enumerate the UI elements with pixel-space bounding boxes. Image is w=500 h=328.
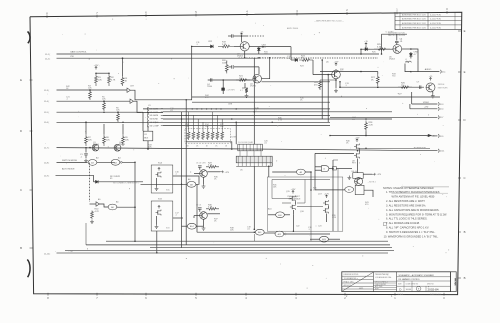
wire riser x143 [142,112,144,131]
fet Q17 [324,201,326,205]
resistor R4 [89,90,92,100]
bus line B1 [192,96,440,98]
wire audio drop2 [339,82,341,87]
resistor R10 [91,211,94,220]
svg-text:1. THIS SCHEMATIC DIAGRAM INT: 1. THIS SCHEMATIC DIAGRAM INTERFACES [386,190,440,194]
wire stage1 out2 [259,46,291,48]
buffer A1 [127,88,130,92]
wire gates row2 [196,184,198,232]
transistor Q3 [240,42,249,51]
transistor Q1 [92,144,99,151]
capacitor C9 [198,208,202,209]
svg-text:2N404: 2N404 [237,56,244,58]
wire input row 3 [57,111,144,113]
resistor R28 [365,121,368,132]
svg-text:K1A: K1A [158,162,162,165]
wire riser x181 [181,112,183,248]
capacitor C6 [396,34,398,40]
svg-text:J1-4 (: J1-4 ( [44,101,49,103]
wire R28 bot [365,132,367,136]
wire U5 right down [271,163,273,167]
svg-text:CODE IDENT NO: CODE IDENT NO [406,283,419,285]
svg-text:S3 GATE: S3 GATE [150,114,159,117]
svg-text:J1-1 (: J1-1 ( [45,54,50,56]
power +12V mid [220,171,224,173]
resistor R23 [299,59,313,62]
bus line L1 [106,240,388,242]
wire A8 out [187,176,199,184]
svg-text:B: B [464,230,466,234]
gate U2 out box [333,167,337,170]
wire gates row [197,231,255,233]
svg-text:TRIG: TRIG [207,86,212,88]
svg-text:TOLERANCES ±: TOLERANCES ± [344,277,358,280]
svg-text:NO CONNECT - SEE NOTE 5: NO CONNECT - SEE NOTE 5 [113,183,139,185]
power +12V U3 [372,173,376,175]
wire Q3 emitter [244,51,246,58]
wire phase internal 1 [272,179,330,181]
wire A3-A4 [97,161,115,163]
svg-text:+12V: +12V [334,61,339,63]
svg-text:22K: 22K [106,139,110,141]
svg-text:CAL-AD: CAL-AD [351,170,359,173]
svg-text:DWG NO: DWG NO [427,283,434,285]
svg-text:E: E [464,70,466,74]
transistor Q7 [426,83,435,92]
connector J2-9 [437,134,440,138]
wire riser x322 [321,60,323,119]
wire U5 left [235,122,237,144]
resistor R19 [218,45,234,48]
svg-text:10040: 10040 [406,289,412,291]
svg-text:10K: 10K [125,139,129,141]
resistor R26 [398,86,412,89]
bus line B3 [143,108,330,110]
svg-text:4-12-67 R.W.: 4-12-67 R.W. [430,19,442,21]
svg-text:AMPL 2N404: AMPL 2N404 [287,27,298,30]
wire U5 feed [253,59,255,145]
svg-text:4.7: 4.7 [240,90,243,92]
wire A6 out [117,206,135,208]
power +12V Q8 [356,139,358,142]
section box left B [151,201,173,231]
transistor Q13 [200,170,208,178]
wire +15 node [233,35,247,37]
svg-text:D: D [463,118,465,122]
ground G3 [245,94,249,98]
sheet border frame [30,12,462,294]
wire C5 gnd [222,91,224,94]
svg-text:2.2K: 2.2K [369,124,374,126]
svg-text:C: C [20,188,22,192]
wire cw right segment [260,57,378,59]
power +12V Q5 [335,63,337,66]
gate A8 [187,181,196,187]
resistor R27 [376,74,379,86]
svg-text:K1B: K1B [158,199,162,201]
svg-text:D: D [20,129,22,133]
svg-text:+12V: +12V [355,137,360,139]
svg-text:DG 14LS08 QUAD: DG 14LS08 QUAD [238,141,254,144]
svg-text:LOS ANGELES CAL: LOS ANGELES CAL [375,276,391,279]
dip block U5 top [238,144,263,151]
philbrick tab [451,272,457,292]
gate A7 [345,187,354,193]
wire cw [57,57,261,59]
capacitor C4 [211,78,212,82]
resistor R7 [85,134,88,146]
wire dotted rail [239,57,285,59]
wire audio link [405,64,412,72]
wire C6 down [396,43,398,45]
wire gain to stage [360,49,362,54]
ground G7 [155,187,159,191]
svg-text:+VID: +VID [424,107,429,109]
svg-text:2.2K: 2.2K [332,217,337,219]
wire ladder out [228,142,232,149]
wire fb [226,61,228,63]
wire gate B row [330,135,428,137]
wire R27 top [377,72,379,75]
ground G2 [90,220,94,224]
wire second stage feed [320,71,378,73]
resistor R8 [103,134,106,146]
wire R7 top [85,122,87,134]
svg-text:4.7V: 4.7V [262,47,267,49]
svg-text:×2.5 PAD: ×2.5 PAD [385,31,394,34]
svg-text:4.7K: 4.7K [95,211,100,213]
phase box [267,177,343,231]
resistor R22 [245,88,248,93]
wire video feed [411,92,413,104]
svg-text:+12V: +12V [225,172,230,174]
svg-text:C23: C23 [318,226,321,228]
svg-text:+12V: +12V [324,193,329,195]
box U3 [353,173,363,179]
power +15V Q7 [429,78,431,81]
svg-text:4-12-67 R.W.: 4-12-67 R.W. [430,23,442,25]
diode CR5 [368,48,370,50]
wire riser x333 [332,160,334,231]
wire Q5 base [313,74,332,76]
title block grid [342,272,451,292]
svg-text:+12V: +12V [94,65,99,67]
svg-text:3.3K: 3.3K [377,47,382,49]
svg-text:TELEDYNE INC: TELEDYNE INC [375,274,389,276]
wire fp2 link [297,206,323,208]
svg-text:2N404: 2N404 [389,59,396,61]
wire U4 out [364,190,373,197]
svg-text:100K: 100K [222,62,227,64]
wire q5 link [320,79,336,81]
wire A7 in [315,189,345,191]
svg-text:2N404: 2N404 [93,144,100,146]
resistor R21 [236,79,250,82]
svg-text:GAIN CONTROL: GAIN CONTROL [70,51,87,54]
bus line B8 [163,125,330,127]
svg-text:- - AMPLIFIER ASSY NO 21-304 -: - - AMPLIFIER ASSY NO 21-304 - - [314,20,344,23]
resistor R6 [117,112,120,122]
bus line B7 [143,121,330,123]
wire riser x294 [292,214,294,231]
gate A14 [187,223,196,229]
svg-text:14: 14 [323,169,325,171]
fet Q18 [324,208,326,212]
ground G5 [431,94,435,98]
wire bus risers mid [253,234,255,241]
svg-text:SIZE: SIZE [398,283,402,285]
power +12V fetpair [292,191,294,194]
svg-text:5. MONITOR REQUIRED FOR S¹ TE: 5. MONITOR REQUIRED FOR S¹ TERM AT 75 Ω … [386,212,447,216]
dip block U5 bar [236,156,272,163]
box U4 [355,185,364,194]
svg-text:ANGLES: ANGLES [344,284,352,287]
svg-text:2. ALL RESISTORS ARE ¼ WATT.: 2. ALL RESISTORS ARE ¼ WATT. [386,199,425,203]
svg-text:PH/AM: PH/AM [454,278,457,285]
wire A14 in [182,225,188,227]
wire Q5 emitter [335,79,337,88]
wire R9 top [122,124,124,134]
wire riser x311 [310,179,312,190]
gate A10 [276,212,285,218]
wire Q4 riser [222,80,224,88]
fet Q8 [355,144,357,148]
svg-text:S2 GATE: S2 GATE [150,111,159,114]
svg-text:NOTES: UNLESS OTHERWISE SPECIF: NOTES: UNLESS OTHERWISE SPECIFIED [383,186,434,190]
junction dots [95,72,97,74]
fet Q12 [157,210,159,214]
dip U5 bar pins [237,156,239,163]
wire Q4 emitter [244,83,246,88]
svg-text:+8V RTN BUS: +8V RTN BUS [413,148,427,150]
binder punch mark lower [27,260,30,278]
section box left A [151,165,173,193]
wire Q6 base [370,48,393,50]
svg-text:C22: C22 [296,226,299,228]
wire A10 in [268,214,276,216]
resistor R2 [108,73,111,86]
svg-text:10K: 10K [98,79,102,81]
svg-text:A REVISED PER ECO 1174: A REVISED PER ECO 1174 [402,14,426,17]
wire phase internal 3 [272,198,291,200]
wire Q3 collector [241,36,243,42]
capacitor C7 [420,85,421,89]
svg-text:+12V NPO: +12V NPO [226,90,235,92]
svg-text:A REVISED PER ECO 1174: A REVISED PER ECO 1174 [402,26,426,29]
resistor R5 [103,101,106,111]
capacitor C8 [198,166,202,167]
wire Q13 out row [207,171,220,173]
capacitor C1 [85,148,87,153]
svg-text:22K: 22K [88,139,92,141]
wire Q13 em [203,177,205,184]
wire riser x254 [253,166,255,229]
svg-text:+12V: +12V [291,189,296,191]
svg-text:4. ALL CAPACITORS ARE IN MICR: 4. ALL CAPACITORS ARE IN MICROFARADS. [386,208,440,212]
wire phase internal 2 [304,180,306,204]
svg-text:6. ALL TTL LOGIC IS 74LS SERI: 6. ALL TTL LOGIC IS 74LS SERIES. [386,217,428,221]
bus line L3 [85,223,87,245]
revision table [395,12,462,30]
wire dash rail top [247,35,264,37]
wire Q3 base [234,45,240,47]
svg-text:9. SWITCH S DESIGNATES 1 × “B: 9. SWITCH S DESIGNATES 1 × “B-2” PNL. [386,230,436,234]
svg-text:FRACT DEC: FRACT DEC [344,280,355,283]
svg-text:2N706: 2N706 [250,86,257,88]
wire riser x186 [185,100,187,245]
wire riser x89 [89,163,91,202]
resistor R3 [121,76,124,86]
diode CR2 [211,45,214,48]
wire Q14 em [203,219,205,226]
svg-text:4.7K: 4.7K [208,207,213,209]
wire stage1 in [192,45,205,47]
wire R8 top [103,124,105,134]
bus line L2 [86,244,390,246]
svg-text:MATL: MATL [359,287,364,290]
svg-text:C8 .01 CER: C8 .01 CER [196,163,206,165]
ground G6 [347,176,351,180]
diode CR3 [258,47,260,48]
svg-text:A REVISED PER ECO 1174: A REVISED PER ECO 1174 [402,22,426,25]
wire Q6 out [402,48,411,50]
gate A9 [296,169,305,175]
bus line B6 [163,118,392,120]
resistor R1 [95,73,98,86]
diode CR4 [295,58,298,61]
transistor Q4 [253,74,262,83]
svg-text:7. ALL DIODES ARE 1N4148.: 7. ALL DIODES ARE 1N4148. [386,221,420,225]
top zone ticks and numbers [46,15,48,18]
wire A1 out [130,90,192,100]
wire relay row [99,181,144,183]
inductor L1 [405,61,411,62]
svg-text:4-12-67 R.W.: 4-12-67 R.W. [430,27,442,29]
gate A12 [275,231,284,237]
resistor R30 [206,208,219,211]
wire A9 wires [272,171,296,173]
svg-text:J1-8 (: J1-8 ( [44,163,49,165]
wire input row 2 [57,100,131,102]
svg-text:8. ALL “NP” CAPACITORS NPO 1: 8. ALL “NP” CAPACITORS NPO 1 KV. [386,226,429,230]
transistor Q14 [200,212,208,220]
wire boxA out [173,175,187,177]
svg-text:S4 BLNK: S4 BLNK [150,119,159,121]
mux block U1 [143,131,153,141]
svg-text:AUDIO: AUDIO [425,68,432,71]
svg-text:VIDEO: VIDEO [423,102,430,104]
wire U1 top [147,126,149,132]
wire video rows [412,103,438,105]
fet Q11 [157,172,159,176]
wire fp2 [328,206,330,208]
wire U1 bottom [147,141,149,149]
wire left riser x191 [191,46,193,99]
wire A8 in [141,183,188,185]
fet Q9 [355,153,357,157]
svg-text:B: B [20,246,22,250]
wire Q14 out row [207,213,220,215]
power +12V at R1 [95,67,97,70]
wire riser x268 [268,166,270,177]
svg-text:2002-84: 2002-84 [428,287,439,291]
wire J2-7 row [330,116,437,118]
wire pad line [382,33,408,35]
capacitor C3 [232,65,233,69]
connector J2-3 [437,102,440,106]
svg-text:AUTO MODE: AUTO MODE [62,168,75,171]
svg-text:C: C [463,176,465,180]
svg-text:2.2K: 2.2K [222,44,227,46]
wire R3 top [122,58,124,76]
binder punch mark upper [28,32,30,44]
transistor Q5 [332,70,341,79]
resistor R24 [319,80,322,90]
svg-text:→NOTE 4: →NOTE 4 [367,182,375,184]
svg-text:← NC: ← NC [68,251,74,253]
gate A11 [255,229,264,235]
transistor Q10 [355,177,363,185]
svg-text:WITH ANTENNA AT P.E. LEVEL 483: WITH ANTENNA AT P.E. LEVEL 4830 [392,195,435,199]
gate A6 [108,204,117,210]
wire stage chain [262,81,331,83]
fet Q16 [291,205,293,209]
bottom zone ticks and numbers [47,293,49,296]
wire input row 4 [57,121,144,123]
bus junction dots [192,108,193,109]
fet Q15 [291,196,293,200]
ladder resistors R11-R18 [188,112,190,131]
wire A4 out [122,162,135,207]
connector J2-7 [437,116,440,120]
svg-text:4.7K: 4.7K [278,120,283,122]
wire video in [340,86,424,88]
transistor Q2 [114,144,121,151]
wire audio row [412,71,440,73]
svg-text:10. WAVEFORM IS GROUNDED 1 A “: 10. WAVEFORM IS GROUNDED 1 A “B-2” TML. [384,234,439,238]
svg-text:10K: 10K [239,78,243,80]
wire fetpair down [292,210,294,214]
svg-text:E: E [464,29,466,33]
svg-text:3. ALL RESISTORS ARE OHM 5%.: 3. ALL RESISTORS ARE OHM 5%. [386,204,426,208]
power +15V audio [365,43,367,46]
capacitor C2 [232,34,233,38]
diode CR1 [96,180,99,183]
ground G4 [334,89,338,93]
wire gain control [57,53,380,55]
wire riser x328 [327,75,329,123]
bus line L4 [150,247,392,249]
wire fb2 [234,66,259,68]
power +15V Q3 [240,33,242,36]
svg-text:A REVISED PER ECO 1174: A REVISED PER ECO 1174 [402,18,426,21]
wire riser x135 [134,207,136,241]
wire boxB out [173,217,183,219]
wire node R1-R2 [96,72,109,74]
connector J2-4 [437,107,440,111]
svg-text:SWITCH MODE: SWITCH MODE [62,160,78,162]
svg-text:4.7K: 4.7K [111,79,116,81]
svg-text:4.7K: 4.7K [208,165,213,167]
svg-text:S6 COMP: S6 COMP [150,125,160,127]
wire q8q9 [359,150,361,153]
wire q9 left [315,152,354,154]
wire q9 down [357,159,359,173]
wire boxB drop [156,231,158,253]
transistor Q6 [393,45,402,54]
gate A13 [320,236,329,242]
ladder enclosure [185,129,230,144]
